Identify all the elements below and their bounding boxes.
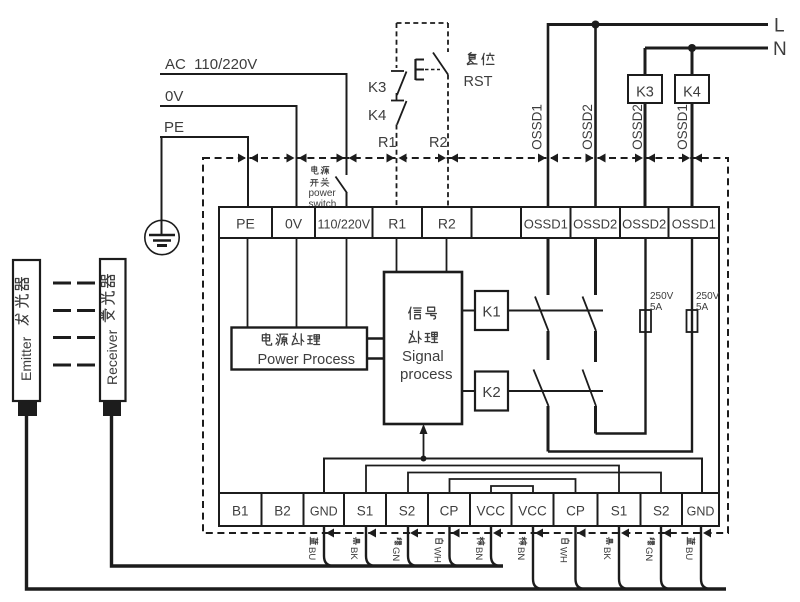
svg-text:GND: GND bbox=[687, 505, 715, 519]
label wire color 黑BK bbox=[601, 537, 613, 560]
wire OSSD2 contact top lead bbox=[594, 238, 597, 295]
svg-text:GND: GND bbox=[310, 505, 338, 519]
label wire color 白WH bbox=[432, 539, 444, 563]
node junction L OSSD2 bbox=[592, 21, 600, 29]
terminal CP bottom bbox=[428, 493, 470, 526]
enclosure device box bbox=[219, 207, 719, 526]
wire OSSD1 contact mid lead bbox=[547, 331, 550, 360]
wire 0V drop to terminal bbox=[296, 105, 298, 207]
wire R2 dashed lower bbox=[447, 75, 449, 208]
terminal OSSD2 top bbox=[620, 207, 669, 238]
wire OSSD1 contact bottom lead bbox=[547, 406, 550, 452]
svg-text:5A: 5A bbox=[650, 302, 663, 313]
wire GND bus bbox=[324, 459, 702, 494]
wire PE drop to terminal bbox=[247, 136, 249, 207]
terminal R1 top bbox=[373, 207, 423, 238]
svg-text:R1: R1 bbox=[378, 135, 397, 151]
label wire color 蓝BU bbox=[306, 537, 318, 560]
label OSSD2 wire rotated bbox=[630, 104, 645, 150]
wire fuse2 top lead bbox=[691, 238, 693, 310]
wire R2 dashed upper bbox=[447, 23, 449, 52]
contact K3 bbox=[391, 71, 407, 95]
svg-text:PE: PE bbox=[236, 216, 255, 232]
terminal blank top bbox=[472, 207, 522, 238]
node junction signal feed bbox=[421, 456, 427, 462]
terminal CP bottom bbox=[554, 493, 598, 526]
svg-text:250V: 250V bbox=[696, 291, 720, 302]
wire 110/220V internal bbox=[346, 238, 348, 327]
svg-text:BK: BK bbox=[601, 547, 612, 560]
wire 绿GN drop bbox=[408, 526, 418, 566]
contact K2 b bbox=[583, 370, 597, 407]
svg-text:0V: 0V bbox=[285, 216, 303, 232]
svg-text:110/220V: 110/220V bbox=[317, 218, 370, 232]
svg-text:OSSD2: OSSD2 bbox=[630, 104, 645, 150]
terminal S1 bottom bbox=[344, 493, 386, 526]
wire between K3 K4 bbox=[396, 93, 398, 101]
svg-text:S1: S1 bbox=[611, 504, 628, 519]
wire 0V internal bbox=[296, 238, 298, 327]
label wire color 绿GN bbox=[643, 538, 655, 561]
terminal S2 bottom bbox=[641, 493, 683, 526]
wire R1 dashed lower bbox=[396, 125, 398, 208]
wire 蓝BU drop bbox=[324, 526, 334, 566]
wire 黑BK drop bbox=[366, 526, 376, 566]
terminal 110/220V top bbox=[315, 207, 373, 238]
switch power switch blade bbox=[336, 177, 348, 194]
wire OSSD2 contact mid lead bbox=[594, 331, 597, 362]
terminal VCC bottom bbox=[512, 493, 554, 526]
wire fuse1 top lead bbox=[644, 238, 646, 310]
label wire color 棕BN bbox=[515, 537, 527, 560]
fuse F1 250V 5A bbox=[640, 291, 674, 332]
svg-text:OSSD2: OSSD2 bbox=[573, 217, 617, 232]
svg-text:5A: 5A bbox=[696, 302, 709, 313]
label wire color 绿GN bbox=[390, 538, 402, 561]
block power process bbox=[232, 328, 368, 370]
terminal GND bottom bbox=[304, 493, 345, 526]
beam rays bbox=[53, 283, 95, 365]
wire L line bbox=[548, 23, 768, 26]
svg-text:K3: K3 bbox=[636, 85, 654, 101]
svg-text:R2: R2 bbox=[429, 135, 448, 151]
wire VCC jumper bbox=[491, 486, 533, 493]
svg-text:WH: WH bbox=[432, 547, 443, 563]
wire R1 dashed upper bbox=[396, 23, 398, 68]
terminal B1 bottom bbox=[219, 493, 262, 526]
svg-text:BN: BN bbox=[515, 547, 526, 560]
contact K4 bbox=[391, 101, 407, 125]
contact K1 b bbox=[583, 297, 597, 332]
wire N line bbox=[645, 47, 768, 50]
wire PE internal bbox=[247, 238, 249, 327]
wire OSSD2 left vertical bbox=[594, 25, 597, 208]
wire K4 coil to N bbox=[691, 48, 694, 75]
svg-text:S2: S2 bbox=[653, 504, 670, 519]
label wire color 白WH bbox=[558, 539, 570, 563]
terminal 0V top bbox=[272, 207, 315, 238]
svg-text:250V: 250V bbox=[650, 291, 674, 302]
svg-text:Power Process: Power Process bbox=[258, 352, 356, 368]
svg-text:L: L bbox=[774, 16, 785, 37]
wire 110/220V drop upper bbox=[346, 73, 348, 175]
wire 蓝BU drop bbox=[701, 526, 711, 589]
wire K3 coil to N bbox=[644, 48, 647, 75]
fuse F2 250V 5A bbox=[687, 291, 720, 332]
label OSSD1 wire rotated bbox=[530, 104, 545, 150]
terminal R2 top bbox=[422, 207, 472, 238]
svg-text:OSSD2: OSSD2 bbox=[580, 104, 595, 150]
wire 绿GN drop bbox=[661, 526, 671, 589]
svg-text:Emitter: Emitter bbox=[18, 336, 34, 381]
wire signal to K1 bbox=[462, 310, 475, 312]
terminal S2 bottom bbox=[386, 493, 428, 526]
relay K2 bbox=[475, 372, 508, 411]
wire R1 internal bbox=[396, 238, 398, 272]
svg-text:B1: B1 bbox=[232, 504, 249, 519]
svg-text:CP: CP bbox=[566, 504, 585, 519]
svg-text:OSSD1: OSSD1 bbox=[524, 217, 568, 232]
contact K2 a bbox=[534, 370, 549, 407]
wire PE line bbox=[160, 136, 248, 138]
svg-text:B2: B2 bbox=[274, 504, 291, 519]
svg-text:R2: R2 bbox=[438, 216, 456, 232]
wire 110/220V drop lower bbox=[346, 192, 348, 207]
wire K1 actuation bbox=[508, 310, 603, 312]
connector receiver bbox=[103, 401, 121, 416]
terminal GND bottom bbox=[682, 493, 719, 526]
svg-text:S1: S1 bbox=[357, 504, 374, 519]
wire 棕BN drop bbox=[533, 526, 543, 589]
ground earth symbol bbox=[145, 220, 179, 254]
label OSSD1 wire rotated bbox=[675, 104, 690, 150]
svg-text:Signal: Signal bbox=[402, 348, 444, 365]
wire K3 to OSSD2 terminal bbox=[644, 103, 647, 207]
wire signal to K2 bbox=[462, 390, 475, 392]
wire reset box dashed top bbox=[397, 22, 449, 24]
node junction N K4 bbox=[688, 44, 696, 52]
svg-text:switch: switch bbox=[309, 199, 337, 210]
svg-text:K4: K4 bbox=[368, 107, 386, 124]
button RST actuator bbox=[416, 59, 441, 80]
wire 0V line bbox=[160, 105, 297, 107]
wire K4 to OSSD1 terminal bbox=[691, 103, 694, 207]
terminal S1 bottom bbox=[598, 493, 641, 526]
svg-text:BU: BU bbox=[683, 547, 694, 560]
wire K2 actuation bbox=[508, 390, 603, 392]
wire OSSD1 left vertical bbox=[547, 23, 550, 207]
relay K4 bbox=[675, 75, 709, 103]
svg-text:GN: GN bbox=[390, 547, 401, 561]
svg-text:VCC: VCC bbox=[518, 504, 547, 519]
svg-text:0V: 0V bbox=[165, 88, 183, 105]
svg-text:PE: PE bbox=[164, 119, 184, 136]
svg-text:GN: GN bbox=[643, 547, 654, 561]
label wire color 棕BN bbox=[473, 537, 485, 560]
wire emitter cable bbox=[27, 416, 727, 589]
wire S2 bus bbox=[408, 473, 661, 494]
svg-text:VCC: VCC bbox=[477, 504, 506, 519]
wire receiver cable bbox=[112, 416, 504, 566]
svg-text:K4: K4 bbox=[683, 85, 701, 101]
wire OSSD1 return bus bbox=[548, 332, 692, 452]
terminal OSSD1 top bbox=[521, 207, 571, 238]
svg-text:WH: WH bbox=[558, 547, 569, 563]
svg-text:R1: R1 bbox=[388, 216, 406, 232]
contact K1 a bbox=[535, 297, 549, 332]
wire OSSD1 contact top lead bbox=[547, 238, 550, 295]
wire power to signal lower bbox=[367, 357, 384, 359]
svg-text:N: N bbox=[773, 39, 787, 60]
svg-text:S2: S2 bbox=[399, 504, 416, 519]
wire S1 bus bbox=[366, 466, 619, 494]
connector emitter bbox=[18, 401, 37, 416]
wire 黑BK drop bbox=[619, 526, 629, 589]
svg-text:BN: BN bbox=[473, 547, 484, 560]
svg-text:OSSD1: OSSD1 bbox=[530, 104, 545, 150]
label wire color 黑BK bbox=[348, 537, 360, 560]
relay K1 bbox=[475, 291, 508, 330]
svg-text:BK: BK bbox=[348, 547, 359, 560]
wire 白WH drop bbox=[576, 526, 586, 589]
svg-text:process: process bbox=[400, 366, 453, 383]
svg-text:K1: K1 bbox=[482, 304, 500, 321]
svg-text:CP: CP bbox=[440, 504, 459, 519]
wire CP bus bbox=[450, 479, 576, 493]
svg-text:K2: K2 bbox=[482, 384, 500, 401]
block signal process bbox=[384, 272, 462, 424]
device receiver bbox=[100, 259, 126, 401]
wire PE to earth bbox=[161, 136, 163, 235]
wire OSSD2 return bus bbox=[596, 332, 646, 434]
label OSSD2 wire rotated bbox=[580, 104, 595, 150]
terminal B2 bottom bbox=[262, 493, 304, 526]
terminal VCC bottom bbox=[470, 493, 512, 526]
terminal PE top bbox=[219, 207, 272, 238]
svg-text:RST: RST bbox=[464, 74, 493, 90]
svg-text:OSSD1: OSSD1 bbox=[672, 217, 716, 232]
wire 白WH drop bbox=[450, 526, 460, 566]
svg-text:K3: K3 bbox=[368, 79, 386, 96]
svg-text:OSSD2: OSSD2 bbox=[622, 217, 666, 232]
svg-text:power: power bbox=[309, 188, 337, 199]
wire power to signal upper bbox=[367, 337, 384, 339]
svg-text:BU: BU bbox=[306, 547, 317, 560]
device emitter bbox=[13, 260, 40, 401]
terminal OSSD2 top bbox=[571, 207, 621, 238]
terminal OSSD1 top bbox=[669, 207, 720, 238]
wire R2 internal bbox=[446, 238, 448, 272]
wire signal feed arrow bbox=[423, 426, 425, 459]
relay K3 bbox=[628, 75, 662, 103]
node boundary crossings bottom bbox=[326, 529, 711, 538]
wire 棕BN drop bbox=[491, 526, 501, 566]
wire OSSD2 contact bottom lead bbox=[594, 406, 597, 434]
svg-text:OSSD1: OSSD1 bbox=[675, 104, 690, 150]
node boundary crossings top bbox=[238, 154, 702, 163]
wire AC 110/220V line bbox=[160, 73, 347, 75]
label power switch bbox=[309, 166, 337, 210]
enclosure dashed boundary bbox=[203, 158, 728, 533]
svg-text:Receiver: Receiver bbox=[104, 329, 120, 385]
svg-text:AC 110/220V: AC 110/220V bbox=[165, 56, 257, 73]
label reset chinese bbox=[467, 53, 477, 65]
label wire color 蓝BU bbox=[683, 537, 695, 560]
button RST blade bbox=[433, 53, 448, 75]
